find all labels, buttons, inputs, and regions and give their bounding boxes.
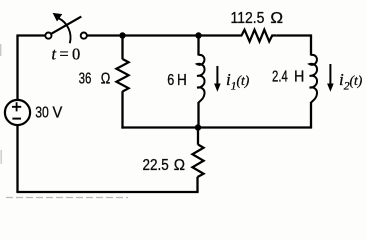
node dot at 6H top <box>195 32 201 38</box>
svg-text:t = 0: t = 0 <box>52 45 81 64</box>
scan artifact: left edge mark <box>0 44 2 164</box>
node dot at 36-ohm top <box>119 32 125 38</box>
wire middle horizontal <box>121 126 312 128</box>
node dot at 22.5-ohm top <box>195 124 201 130</box>
wire 22.5-ohm branch upper <box>197 128 199 145</box>
wire top horizontal (switch to 112.5 ohm) <box>87 34 239 36</box>
resistor R1 112.5 ohm (top horizontal) <box>239 30 277 42</box>
wire 6H branch upper <box>197 36 199 56</box>
wire bottom horizontal <box>16 191 198 193</box>
inductor L1 6 H <box>197 55 204 103</box>
svg-text:22.5Ω: 22.5Ω <box>143 157 186 174</box>
switch SW (opens at t=0) <box>45 13 87 43</box>
svg-text:6H: 6H <box>167 72 187 89</box>
current arrow i2 <box>329 64 331 85</box>
voltage source V1 30 V <box>5 100 30 125</box>
wire 6H branch lower <box>197 102 199 128</box>
scan artifact: faint dashed line bottom-left <box>6 197 128 199</box>
resistor R2 36 ohm (vertical) <box>116 36 128 129</box>
wire left vertical (source branch) <box>16 36 18 193</box>
resistor R3 22.5 ohm (vertical) <box>192 145 203 178</box>
wire right vertical lower <box>310 102 312 128</box>
wire top-right to corner <box>277 34 311 36</box>
current arrow i1 <box>216 66 218 85</box>
wire top-left horizontal <box>16 34 45 36</box>
svg-text:112.5Ω: 112.5Ω <box>231 10 284 27</box>
wire 22.5-ohm branch lower <box>196 177 198 192</box>
inductor L2 2.4 H <box>310 55 317 103</box>
wire right vertical upper <box>310 34 312 55</box>
